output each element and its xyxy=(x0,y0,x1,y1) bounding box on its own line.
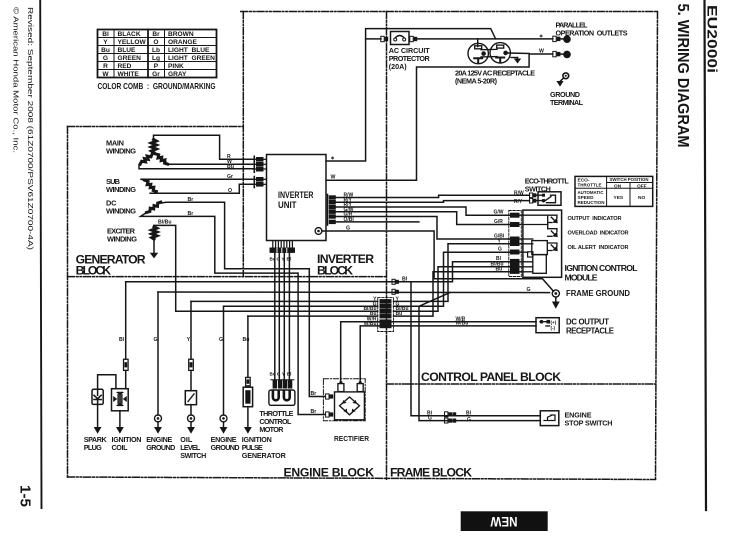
throttle motor label xyxy=(259,409,293,434)
O/Bl spare wire xyxy=(336,221,419,223)
svg-text:G: G xyxy=(467,417,471,423)
svg-text:CONTROL PANEL BLOCK: CONTROL PANEL BLOCK xyxy=(421,370,561,384)
sub winding coil xyxy=(145,180,157,191)
W/Bu wire rectifier to DC receptacle xyxy=(360,326,536,382)
receptacle chassis ground stub arrow xyxy=(511,57,518,59)
main winding Y coil xyxy=(151,140,156,153)
Bl/Bu wire stack to module xyxy=(394,267,510,311)
svg-text:REDUCTION: REDUCTION xyxy=(578,200,606,206)
exciter winding coil xyxy=(152,227,157,239)
svg-text:BROWN: BROWN xyxy=(168,31,194,38)
svg-text:Bu: Bu xyxy=(227,164,234,170)
spark plug feed wire xyxy=(98,375,116,390)
eco-throttle switch connector pins xyxy=(530,193,537,203)
svg-text:G: G xyxy=(527,287,531,293)
stack connector dashed outline xyxy=(378,298,394,332)
block titles xyxy=(76,252,562,479)
svg-text:YES: YES xyxy=(614,195,624,201)
svg-text:G/R: G/R xyxy=(494,219,503,225)
W/R wire rectifier to DC receptacle xyxy=(341,322,536,382)
svg-text:RED: RED xyxy=(118,63,132,70)
svg-text:Br: Br xyxy=(152,31,160,38)
svg-text:Br: Br xyxy=(188,211,194,217)
diode ticks xyxy=(342,400,357,412)
svg-text:Gr: Gr xyxy=(152,71,160,78)
receptacle bus links xyxy=(481,48,497,50)
engine ground 1 label xyxy=(146,435,175,452)
ignition coil Bl lead from top xyxy=(125,282,127,359)
block borders (dash-dot) xyxy=(68,12,658,480)
ac circuit protector input connector xyxy=(381,36,388,41)
svg-text:GRAY: GRAY xyxy=(168,71,187,78)
throttle motor wire labels (bottom) xyxy=(270,372,292,377)
svg-text:∗: ∗ xyxy=(539,33,543,39)
svg-text:R/W: R/W xyxy=(514,191,524,197)
svg-text:G/W: G/W xyxy=(494,210,504,216)
overload indicator LED xyxy=(551,231,557,237)
ac circuit protector label xyxy=(389,46,431,71)
inverter bottom connector housing xyxy=(270,248,296,253)
svg-text:LIGHT BLUE: LIGHT BLUE xyxy=(168,47,210,54)
ignition control module box B xyxy=(533,255,547,274)
svg-text:W: W xyxy=(539,48,544,54)
Bu wire stack to module xyxy=(394,272,510,316)
svg-text:RECTIFIER: RECTIFIER xyxy=(334,434,370,443)
generator/engine divider xyxy=(68,276,387,278)
svg-text:GENERATOR: GENERATOR xyxy=(242,451,287,460)
right outlet contact dot xyxy=(503,51,508,56)
svg-text:PLUG: PLUG xyxy=(84,443,102,452)
svg-text:Bu: Bu xyxy=(270,372,276,377)
indicator labels xyxy=(568,216,629,251)
svg-text:MOTOR: MOTOR xyxy=(259,425,284,434)
svg-text:NEW: NEW xyxy=(490,514,517,529)
svg-text:W/Bu: W/Bu xyxy=(364,321,377,327)
main winding left lead wire xyxy=(139,162,253,169)
color table text xyxy=(101,31,160,78)
stop switch wire labels xyxy=(427,410,472,423)
wire color code table xyxy=(98,30,217,78)
svg-text:Bl: Bl xyxy=(466,410,472,416)
G/W wire to output indicator xyxy=(336,207,510,215)
svg-text:GROUND: GROUND xyxy=(146,443,175,452)
throttle motor wire labels (top) xyxy=(270,257,292,262)
parallel operation outlets label xyxy=(556,21,628,38)
W/R W/Bu labels xyxy=(456,316,469,326)
svg-text:LIGHT GREEN: LIGHT GREEN xyxy=(168,55,215,62)
svg-text:G: G xyxy=(428,415,432,421)
svg-text:EU2000i: EU2000i xyxy=(705,5,721,73)
pulse generator inline connector xyxy=(246,377,251,385)
inverter left connector group 2 (2 pins) xyxy=(253,177,267,188)
oil level switch inline connector xyxy=(189,359,194,370)
svg-text:Y: Y xyxy=(187,337,191,343)
svg-text:SWITCH: SWITCH xyxy=(180,451,206,460)
ac receptacle right outlet xyxy=(490,43,510,63)
Bl wire ignition coil to stop switch net xyxy=(126,262,510,282)
inverter left connector group 1 (3 pins) xyxy=(253,156,267,172)
svg-text:ON: ON xyxy=(614,183,622,189)
ac circuit protector box xyxy=(391,32,410,45)
svg-text:OUTPUT INDICATOR: OUTPUT INDICATOR xyxy=(568,216,622,222)
svg-text:COLOR COMB : GROUND/MARKING: COLOR COMB : GROUND/MARKING xyxy=(98,82,216,91)
Bu wire pulse generator to stack xyxy=(248,315,378,317)
oil alert indicator LED xyxy=(551,245,557,251)
ignition coil box xyxy=(112,389,129,411)
svg-text:(+): (+) xyxy=(551,320,557,325)
svg-text:Bl: Bl xyxy=(287,372,292,377)
svg-text:RECEPTACLE: RECEPTACLE xyxy=(566,327,614,336)
engine ground 2 label xyxy=(211,435,240,452)
svg-text:PINK: PINK xyxy=(168,63,184,70)
engine stop switch box xyxy=(540,411,559,426)
bridge diamond xyxy=(340,397,360,415)
oil level switch ring terminal xyxy=(188,415,195,422)
svg-text:O: O xyxy=(228,188,232,194)
svg-text:WINDING: WINDING xyxy=(107,235,137,244)
svg-text:OFF: OFF xyxy=(637,183,647,189)
inverter AC output wire 1 (hot) xyxy=(326,29,553,161)
wire color labels (generator leads) xyxy=(158,154,234,226)
exciter winding ground lead xyxy=(153,239,155,253)
frame ground wire xyxy=(158,291,550,294)
svg-text:MODULE: MODULE xyxy=(565,273,598,283)
svg-text:ENGINE BLOCK: ENGINE BLOCK xyxy=(284,465,375,479)
rectifier left connector 2 xyxy=(326,412,334,417)
dc winding top lead xyxy=(158,202,325,396)
inverter unit box xyxy=(267,155,327,241)
motor windings xyxy=(273,391,279,400)
svg-text:SWITCH POSITION: SWITCH POSITION xyxy=(610,177,649,183)
right margin rule xyxy=(705,0,707,510)
breaker contacts xyxy=(394,38,397,41)
spark plug ground lead xyxy=(97,404,99,427)
svg-text:R: R xyxy=(103,63,108,70)
main winding right coil xyxy=(155,154,168,164)
Y wire stack to module xyxy=(394,244,510,302)
dc receptacle terminals xyxy=(540,320,544,324)
ground terminal symbol xyxy=(556,73,568,87)
parallel outlet 1 connector xyxy=(553,36,564,41)
svg-text:UNIT: UNIT xyxy=(278,200,297,210)
ignition coil inline connector xyxy=(124,359,129,370)
svg-text:BLOCK: BLOCK xyxy=(317,263,353,277)
inverter ground terminal screw xyxy=(315,228,322,235)
svg-text:W: W xyxy=(102,71,109,78)
svg-text:(NEMA 5-20R): (NEMA 5-20R) xyxy=(455,77,498,86)
svg-text:Lg: Lg xyxy=(152,55,160,62)
svg-text:INVERTER: INVERTER xyxy=(278,190,314,200)
ground terminal label xyxy=(550,90,584,107)
G/Bl wire to oil alert xyxy=(336,217,510,240)
rectifier dashed enclosure xyxy=(323,379,365,421)
G branch down to stop switch xyxy=(419,306,444,420)
svg-text:© American Honda Motor Co., In: © American Honda Motor Co., Inc. xyxy=(12,7,21,153)
rectifier body xyxy=(335,392,365,420)
Bl inline connector xyxy=(392,279,395,284)
G branch diagonal to frame ground wire xyxy=(419,293,450,307)
main winding right lead wire xyxy=(167,163,254,165)
svg-text:FRAME BLOCK: FRAME BLOCK xyxy=(390,465,472,479)
svg-text:Br: Br xyxy=(311,391,317,397)
top border xyxy=(241,11,658,13)
throttle motor connector xyxy=(273,380,293,389)
eco-throttle wire 2 xyxy=(336,201,530,203)
pulse generator coil box xyxy=(243,387,252,407)
svg-text:FRAME GROUND: FRAME GROUND xyxy=(566,288,630,298)
sub winding bottom lead xyxy=(150,184,253,193)
connector column (dashed) xyxy=(509,211,522,277)
svg-text:WHITE: WHITE xyxy=(118,71,140,78)
svg-text:THROTTLE: THROTTLE xyxy=(578,183,603,189)
svg-text:WINDING: WINDING xyxy=(106,185,136,194)
eco-throttle switch label xyxy=(525,177,570,194)
stop switch connector pins xyxy=(445,412,457,423)
Bl branch down to stop switch xyxy=(411,282,444,416)
main winding left coil xyxy=(140,154,152,164)
svg-text:P: P xyxy=(154,63,159,70)
svg-text:∗: ∗ xyxy=(331,156,335,162)
svg-text:Bl/Bu: Bl/Bu xyxy=(158,220,172,226)
stop switch wires to box xyxy=(444,416,540,421)
throttle motor wires xyxy=(275,253,290,380)
inverter right wire labels xyxy=(344,193,355,224)
svg-text:YELLOW: YELLOW xyxy=(118,39,147,46)
dc winding bottom lead xyxy=(141,213,326,415)
left margin rule xyxy=(40,0,41,508)
svg-text:Bl: Bl xyxy=(119,337,125,343)
indicator wires inside panel xyxy=(520,215,557,272)
svg-text:O: O xyxy=(153,39,158,46)
svg-text:BLACK: BLACK xyxy=(118,31,141,38)
svg-text:Bl: Bl xyxy=(102,31,109,38)
dc output receptacle label xyxy=(566,318,614,336)
ignition control module label xyxy=(565,263,638,283)
left border xyxy=(67,127,69,478)
ignition pulse generator wire xyxy=(247,316,249,377)
svg-text:BLOCK: BLOCK xyxy=(76,263,112,277)
rectifier left connector 1 xyxy=(326,394,334,399)
bottom border xyxy=(68,477,656,480)
svg-text:R/Y: R/Y xyxy=(514,199,523,205)
svg-text:G: G xyxy=(154,337,158,343)
Y wire oil switch to stack xyxy=(191,300,378,302)
svg-text:Y: Y xyxy=(282,372,285,377)
engine ground 1 wire xyxy=(157,292,159,415)
module wire labels xyxy=(491,210,505,273)
svg-text:NO: NO xyxy=(638,195,645,201)
svg-text:(-): (-) xyxy=(551,326,556,331)
svg-text:G: G xyxy=(346,226,350,232)
svg-text:Revised: September 2008 (61Z07: Revised: September 2008 (61Z0700/PSV61Z0… xyxy=(26,7,35,251)
stack wire labels right xyxy=(396,296,409,317)
inverter AC output wire 2 (neutral) xyxy=(326,54,553,180)
stack wire labels left xyxy=(363,296,377,327)
eco-throttle switch body xyxy=(538,192,561,206)
svg-text:W/Bu: W/Bu xyxy=(456,321,469,327)
ignition coil windings xyxy=(113,392,127,406)
svg-text:Bu: Bu xyxy=(101,47,110,54)
svg-text:Y: Y xyxy=(103,39,108,46)
ac receptacle left outlet xyxy=(468,43,488,63)
ignition coil label xyxy=(112,435,142,452)
svg-text:5. WIRING DIAGRAM: 5. WIRING DIAGRAM xyxy=(674,4,691,148)
exciter ground arrow xyxy=(150,253,158,259)
dc winding coil xyxy=(147,202,161,212)
oil level switch label xyxy=(180,435,206,460)
svg-text:DC OUTPUT: DC OUTPUT xyxy=(566,318,609,327)
exciter winding top lead xyxy=(154,225,378,311)
svg-text:OVERLOAD INDICATOR: OVERLOAD INDICATOR xyxy=(568,231,629,237)
svg-text:Br: Br xyxy=(188,197,194,203)
svg-text:Bl: Bl xyxy=(402,277,408,283)
ignition coil ground lead xyxy=(119,411,121,427)
stack connector pins xyxy=(380,299,392,328)
receptacle feed drop xyxy=(477,39,479,47)
svg-text:G: G xyxy=(219,337,223,343)
winding name labels xyxy=(106,139,137,244)
svg-text:COIL: COIL xyxy=(112,443,129,452)
generator/inverter divider xyxy=(242,12,244,277)
module side tab xyxy=(528,252,533,257)
control panel bottom border xyxy=(387,383,656,385)
inverter right connector pins (6) xyxy=(328,195,336,226)
inverter G wire to frame ground xyxy=(322,231,554,291)
svg-text:G: G xyxy=(277,372,281,377)
svg-text:Lb: Lb xyxy=(152,47,160,54)
rectifier top pins xyxy=(338,381,363,391)
spark plug label xyxy=(84,435,108,452)
engine ground 2 wire xyxy=(223,306,225,415)
generator block top border xyxy=(68,126,244,128)
svg-text:1-5: 1-5 xyxy=(16,485,32,507)
frame ground terminal xyxy=(552,290,559,297)
ac circuit protector output connector xyxy=(410,36,496,41)
svg-text:Bu: Bu xyxy=(243,337,250,343)
receptacle neutral link to W wire xyxy=(506,52,529,55)
panel outer box xyxy=(523,210,562,277)
spark plug xyxy=(92,389,103,404)
G wire engine ground 2 to stack xyxy=(224,305,378,307)
main winding top lead wire xyxy=(154,135,254,159)
ac receptacle label xyxy=(455,69,535,86)
sub winding top lead xyxy=(141,178,253,181)
throttle motor body xyxy=(269,390,295,405)
ignition control module box A xyxy=(532,241,548,255)
oil level switch box xyxy=(185,391,196,405)
eco wire labels xyxy=(514,191,524,205)
parallel outlet 2 pin xyxy=(563,51,571,59)
svg-text:WINDING: WINDING xyxy=(106,207,136,216)
svg-text:Gr: Gr xyxy=(227,174,233,180)
engine ground 1 ring terminal xyxy=(155,415,162,422)
parallel outlet 2 connector xyxy=(553,51,564,56)
svg-text:WINDING: WINDING xyxy=(106,147,136,156)
svg-text:Br: Br xyxy=(311,409,317,415)
left outlet contact dot xyxy=(481,51,486,56)
svg-text:G: G xyxy=(103,55,108,62)
pulse generator label xyxy=(242,435,287,460)
engine ground 2 ring terminal xyxy=(220,415,227,422)
svg-text:GROUND: GROUND xyxy=(211,443,240,452)
engine stop switch label xyxy=(565,411,613,428)
oil level switch wire xyxy=(190,301,192,359)
ac protector branch junction xyxy=(366,38,381,40)
svg-text:W: W xyxy=(331,175,336,181)
svg-text:OIL ALERT INDICATOR: OIL ALERT INDICATOR xyxy=(568,245,629,251)
eco-throttle wire 1 xyxy=(336,195,530,197)
G wire stack to module xyxy=(394,252,510,306)
AC output wire labels xyxy=(331,33,545,180)
connector column pins xyxy=(510,213,520,274)
svg-text:IGNITION CONTROL: IGNITION CONTROL xyxy=(565,263,638,273)
inverter bottom connector comb xyxy=(273,241,293,248)
svg-text:STOP SWITCH: STOP SWITCH xyxy=(565,419,613,428)
frame ground wire connector xyxy=(392,289,395,294)
NEW stamp xyxy=(461,511,548,531)
svg-text:ORANGE: ORANGE xyxy=(168,39,198,46)
svg-text:(20A): (20A) xyxy=(389,62,408,71)
parallel outlet 1 pin xyxy=(563,35,571,43)
svg-text:Bu: Bu xyxy=(396,311,403,317)
G/R wire to overload indicator xyxy=(336,212,510,225)
svg-text:ECO-: ECO- xyxy=(578,177,590,183)
svg-text:BLUE: BLUE xyxy=(118,47,137,54)
svg-text:TERMINAL: TERMINAL xyxy=(550,98,584,107)
right border xyxy=(656,12,658,480)
inverter/control & engine/frame divider xyxy=(386,12,388,480)
svg-text:GREEN: GREEN xyxy=(118,55,142,62)
output indicator LED xyxy=(551,217,557,223)
